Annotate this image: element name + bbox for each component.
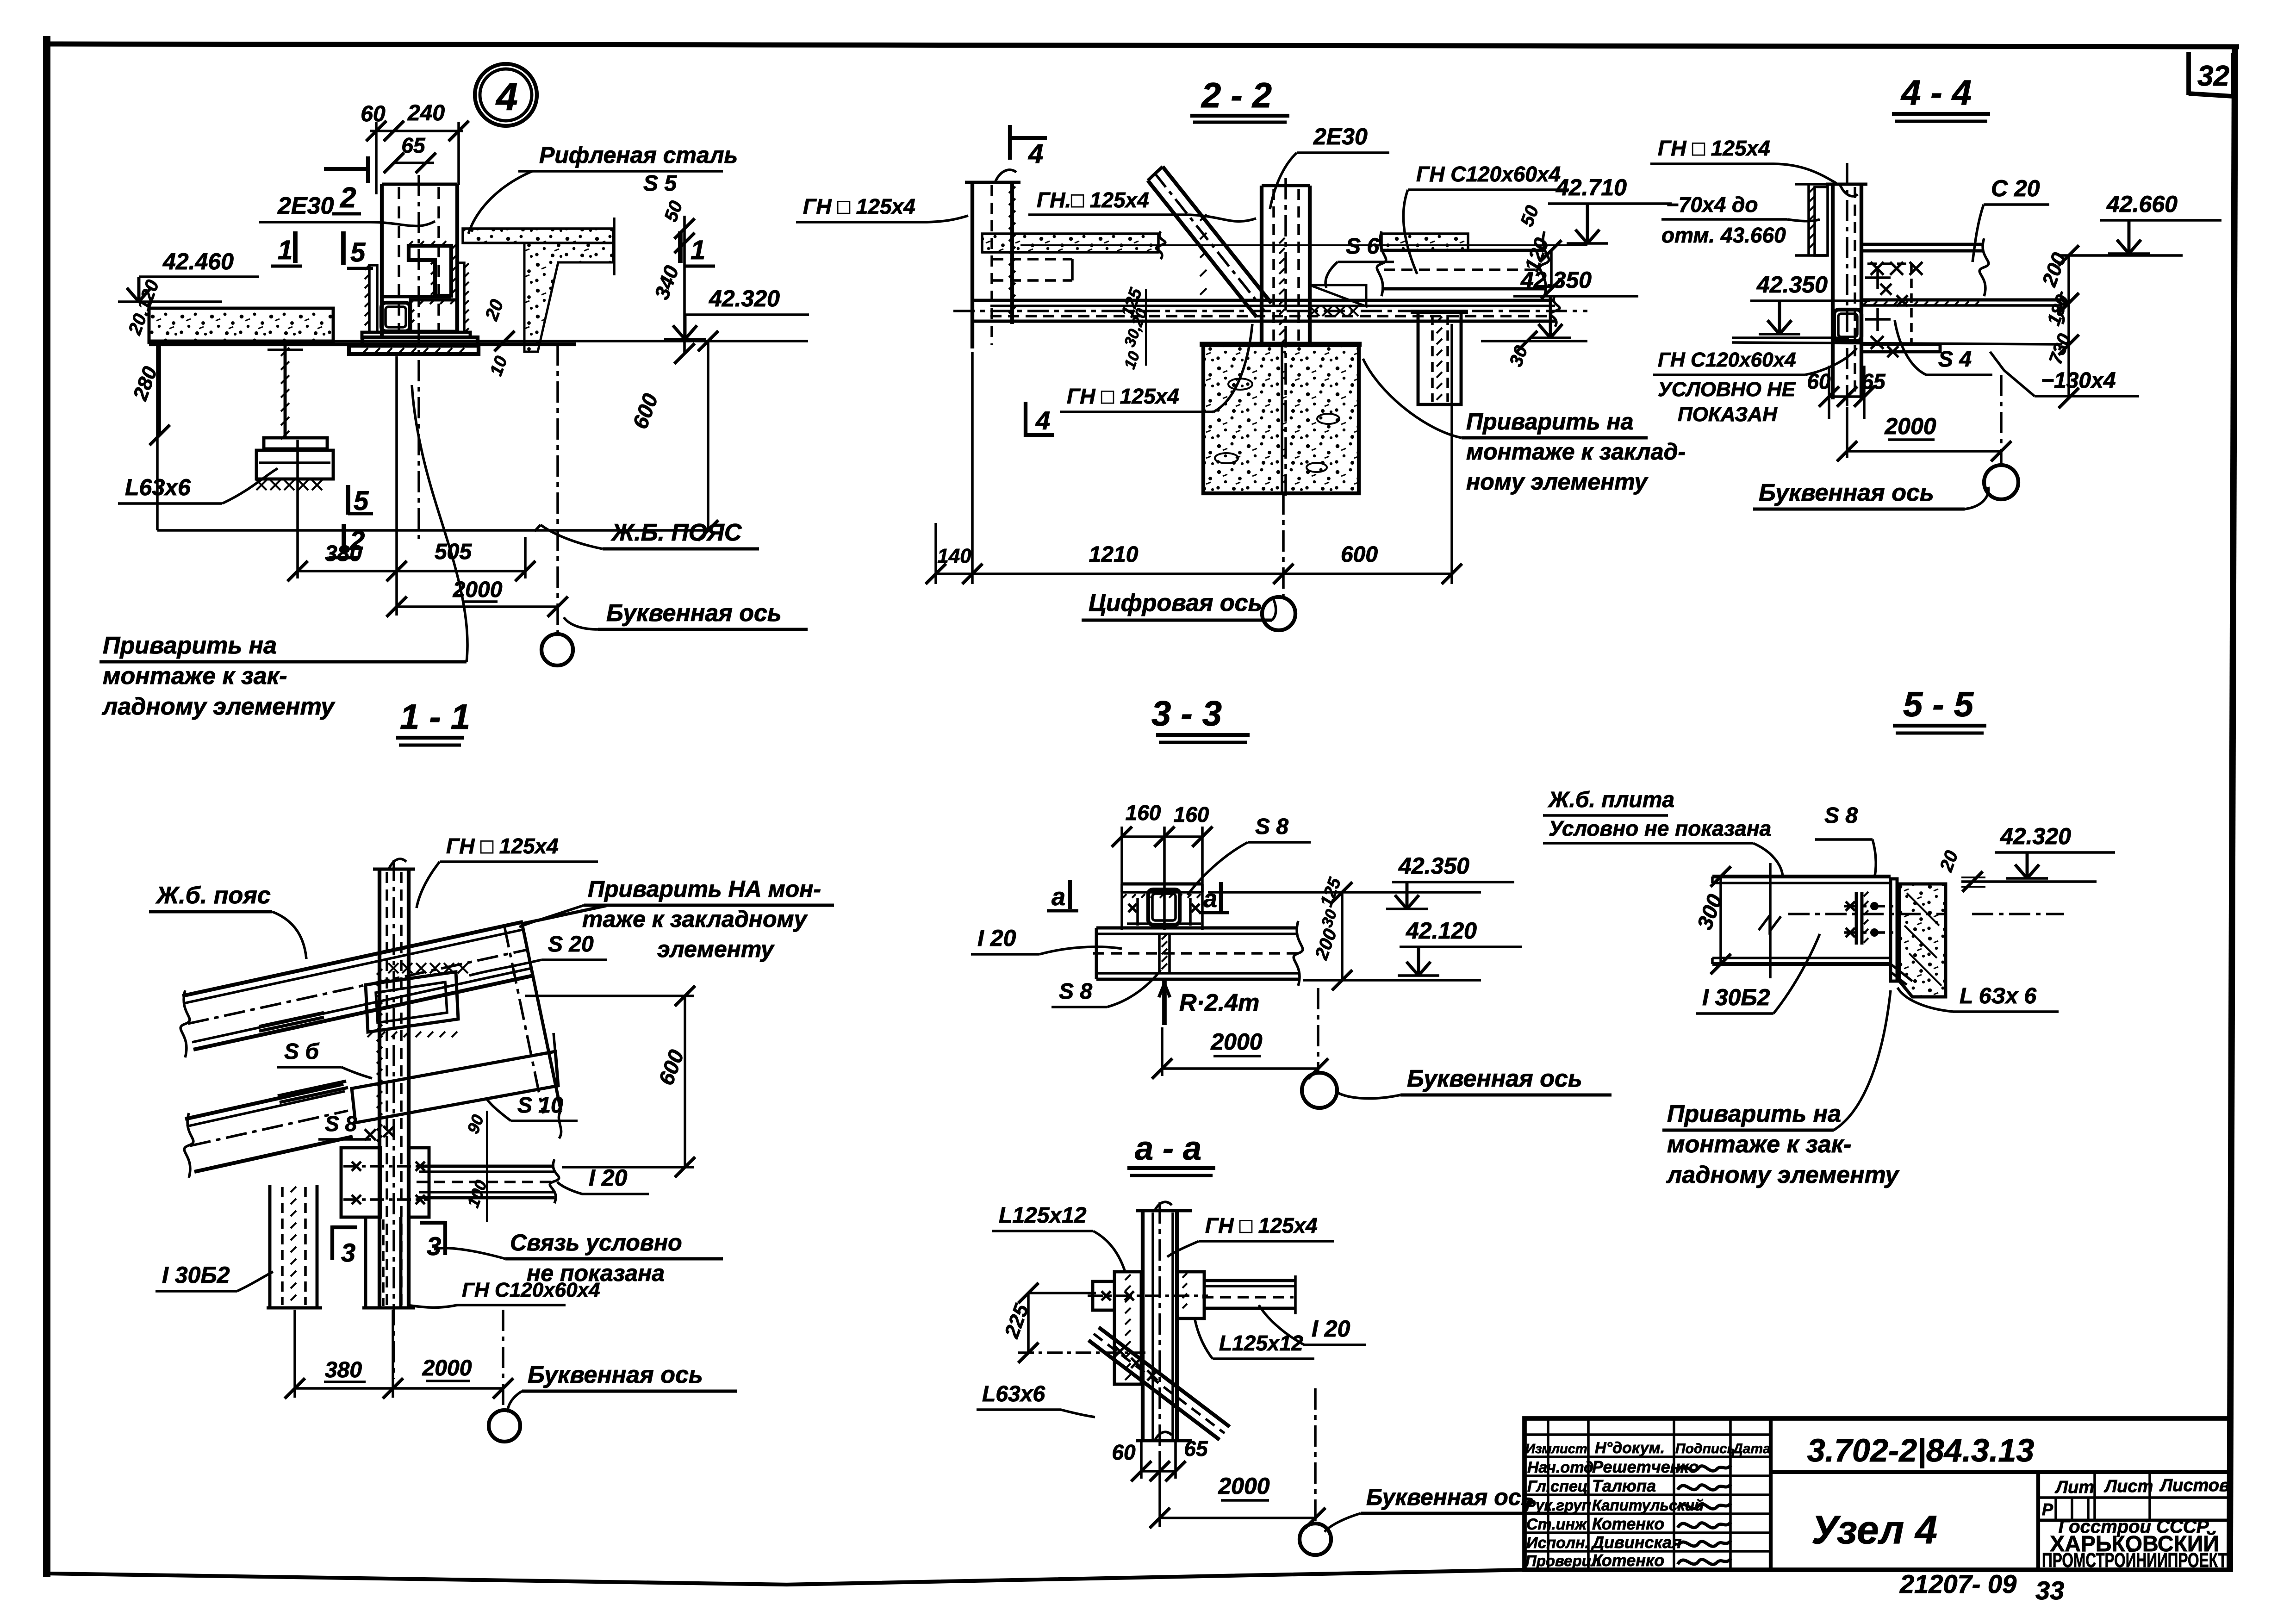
beam I20 hidden [417, 1181, 555, 1183]
ext line 600 bottom [562, 1166, 694, 1169]
beam I20 right hidden [1202, 1296, 1294, 1299]
right panel edge centerline [504, 927, 543, 1113]
lower slab top (1-1) [185, 1084, 343, 1119]
pier concrete [1203, 345, 1359, 493]
right beam bottom line [1381, 287, 1544, 291]
gusset plate [1310, 285, 1366, 306]
svg-text:10: 10 [1121, 349, 1144, 372]
weld x above splice [365, 1129, 376, 1140]
left outer plate a-a [1093, 1281, 1114, 1310]
svg-text:20: 20 [481, 297, 508, 323]
svg-text:a - a: a - a [1135, 1130, 1201, 1167]
bottom chord weld dots [1863, 301, 1867, 305]
column a-a outer left [1141, 1211, 1145, 1441]
svg-text:Лит: Лит [2054, 1478, 2094, 1497]
wall column weld hatch [1009, 187, 1015, 193]
svg-text:ГН С120х60х4: ГН С120х60х4 [1416, 162, 1561, 186]
dashed channel under slab [992, 258, 1072, 261]
end plate (5-5) [1891, 879, 1897, 981]
svg-text:600: 600 [628, 390, 663, 432]
svg-text:ГН □ 125х4: ГН □ 125х4 [803, 194, 915, 218]
column 4-4 cap [1826, 183, 1867, 186]
right beam right break [1540, 231, 1549, 296]
svg-text:21207- 09: 21207- 09 [1899, 1569, 2016, 1598]
svg-text:2000: 2000 [1218, 1473, 1269, 1499]
wall column cap [965, 181, 1020, 184]
ext line 600 top [525, 995, 694, 997]
center column hidden [1272, 189, 1275, 342]
embedded channel weld row [388, 963, 398, 973]
section flag 2 top [324, 167, 368, 171]
pedestal plate right [411, 300, 457, 331]
svg-text:Приварить на: Приварить на [103, 632, 277, 659]
svg-text:лист: лист [1550, 1442, 1587, 1456]
weld x zone [1871, 262, 1884, 275]
svg-text:ГН С120х60х4: ГН С120х60х4 [462, 1279, 600, 1301]
svg-text:таже к закладному: таже к закладному [582, 906, 808, 932]
left splice plate a-a [1114, 1272, 1141, 1384]
svg-text:1 - 1: 1 - 1 [400, 697, 470, 737]
diagonal brace hatch [1200, 214, 1207, 221]
svg-text:60: 60 [361, 102, 386, 126]
svg-text:2000: 2000 [1884, 413, 1936, 439]
brace2 left [364, 1217, 367, 1308]
section mark 1 left [293, 231, 298, 263]
base side stiffener left [369, 265, 377, 332]
left slab left edge [148, 302, 151, 344]
svg-text:5: 5 [350, 237, 366, 267]
svg-text:600: 600 [1341, 542, 1378, 567]
left cut line (5-5) [1769, 863, 1772, 978]
svg-text:монтаже к зак-: монтаже к зак- [103, 663, 287, 690]
column a-a inner lines [1151, 1213, 1154, 1439]
col 1-1 cap [373, 868, 415, 871]
axis circle (3-3) [1302, 1073, 1337, 1108]
svg-text:УСЛОВНО НЕ: УСЛОВНО НЕ [1658, 378, 1796, 401]
svg-text:ГН □ 125х4: ГН □ 125х4 [1205, 1213, 1318, 1237]
left I-beam bottom flange [264, 438, 327, 449]
beam I20 (1-1) bot2 [419, 1196, 554, 1200]
flag a right [1219, 882, 1223, 911]
svg-text:2000: 2000 [1210, 1029, 1262, 1055]
svg-text:Ж.б. пояс: Ж.б. пояс [155, 882, 271, 909]
lower slab top inner (1-1) [187, 1091, 345, 1126]
weld dots under base [363, 348, 368, 353]
svg-text:Рифленая сталь: Рифленая сталь [539, 142, 738, 168]
beam left end [1095, 928, 1098, 979]
concrete column (5-5) [1899, 884, 1946, 997]
main beam right break [1550, 295, 1560, 327]
svg-text:4: 4 [1035, 406, 1050, 435]
column hidden lines [398, 187, 400, 331]
svg-text:Листов: Листов [2159, 1476, 2230, 1495]
column top cap [382, 183, 457, 186]
svg-text:Буквенная ось: Буквенная ось [1759, 479, 1934, 506]
slab left break [180, 990, 190, 1057]
svg-text:60: 60 [1807, 369, 1831, 393]
axis circle (a-a) [1300, 1524, 1331, 1555]
dim extensions (1-1) [293, 1310, 296, 1398]
svg-text:монтаже к зак-: монтаже к зак- [1667, 1131, 1851, 1158]
weld splice strip [1158, 934, 1161, 973]
column a-a bottom cap [1136, 1439, 1192, 1443]
brace2 bottom [362, 1306, 404, 1310]
column 4-4 left [1831, 184, 1835, 399]
svg-text:Ж.Б. ПОЯС: Ж.Б. ПОЯС [610, 519, 742, 546]
page border bottom [47, 1570, 1524, 1585]
left plate hatch [1125, 1275, 1131, 1280]
svg-text:a: a [1203, 885, 1217, 913]
top chord line1 [1861, 243, 1984, 246]
svg-text:L63х6: L63х6 [982, 1382, 1045, 1406]
svg-text:Узел 4: Узел 4 [1811, 1508, 1937, 1552]
axis circle TL [541, 634, 573, 665]
plate -70x4 [1815, 187, 1828, 255]
cap channel dots [1123, 894, 1126, 898]
svg-text:Лист: Лист [2103, 1477, 2153, 1496]
svg-text:4: 4 [1028, 139, 1043, 169]
right beam hidden mid [1384, 268, 1541, 271]
deck plate line [149, 342, 576, 346]
bolt axis upper a-a [1088, 1294, 1208, 1297]
svg-text:Буквенная ось: Буквенная ось [528, 1362, 703, 1388]
svg-text:R·2.4т: R·2.4т [1179, 989, 1259, 1016]
embedded channel (1-1) [366, 972, 458, 1032]
bolt hanger cap [1411, 310, 1468, 314]
svg-text:380: 380 [325, 541, 362, 566]
beam I20 (3-3) bot2 [1096, 978, 1298, 981]
bottom chord line1 [1861, 298, 2062, 302]
bolt plate hatch [1864, 892, 1868, 896]
svg-text:S 6: S 6 [1346, 234, 1379, 259]
bolt hanger inner [1431, 315, 1434, 402]
svg-text:Котенко: Котенко [1592, 1551, 1664, 1570]
svg-text:5 - 5: 5 - 5 [1903, 685, 1974, 724]
svg-text:2Е30: 2Е30 [277, 193, 334, 219]
svg-text:Приварить на: Приварить на [1466, 409, 1634, 435]
left I-beam web hatch [281, 348, 289, 356]
level line (3-3) top [1208, 891, 1481, 894]
col 1-1 centerline [392, 860, 395, 1379]
main beam bottom line [972, 320, 1555, 323]
bolt axis lower a-a [1018, 1351, 1145, 1354]
svg-text:ПОКАЗАН: ПОКАЗАН [1678, 403, 1778, 426]
svg-text:Дивинская: Дивинская [1591, 1533, 1681, 1552]
left I-beam web [284, 344, 287, 438]
svg-text:140: 140 [937, 545, 971, 567]
bolt cross 1 [1865, 276, 1891, 279]
splice left plate [341, 1148, 380, 1217]
bottom bracket (4-4) [1861, 344, 1940, 352]
svg-text:−130х4: −130х4 [2041, 368, 2116, 393]
splice bolts [343, 1165, 430, 1168]
svg-text:Буквенная ось: Буквенная ось [1366, 1484, 1535, 1510]
svg-text:160: 160 [1174, 802, 1209, 827]
svg-text:730: 730 [2045, 331, 2075, 367]
svg-text:ГН.□ 125х4: ГН.□ 125х4 [1037, 188, 1149, 212]
right haunch concrete [524, 243, 613, 352]
beam right hatch [1182, 1273, 1187, 1278]
svg-text:Цифровая ось: Цифровая ось [1089, 590, 1262, 616]
beam I20 (3-3) top2 [1096, 933, 1298, 935]
wall column hidden [990, 185, 993, 345]
level line 42.350 right [1481, 340, 1587, 342]
bottom chord break [2058, 292, 2067, 324]
svg-text:S 5: S 5 [643, 171, 677, 196]
cap channel (3-3) [1122, 883, 1202, 886]
bolt hanger hatch [1437, 317, 1442, 322]
section flag 5 bottom [346, 485, 350, 515]
diag brace weld x [1115, 1346, 1125, 1356]
right beam left break [1377, 231, 1386, 296]
column a-a outer right [1175, 1211, 1179, 1441]
column base plate [362, 332, 470, 337]
svg-text:L 6Зх 6: L 6Зх 6 [1960, 984, 2036, 1008]
svg-text:L125х12: L125х12 [999, 1203, 1087, 1228]
diagonal brace centerline [1154, 173, 1264, 310]
main beam centerline [953, 310, 1587, 312]
svg-text:I 30Б2: I 30Б2 [162, 1262, 230, 1288]
level line (5-5) [1961, 880, 2097, 883]
gusset S10 (1-1) [352, 1051, 558, 1123]
svg-text:L63х6: L63х6 [125, 474, 191, 500]
svg-text:S 8: S 8 [1255, 815, 1288, 839]
floor level line 2-2 [1020, 244, 1587, 246]
svg-text:S 8: S 8 [1824, 803, 1858, 828]
dim line 140-1210-600 [936, 572, 1452, 575]
svg-text:С 20: С 20 [1991, 175, 2040, 201]
svg-text:Приварить НА мон-: Приварить НА мон- [588, 876, 821, 902]
column 2E30 right line [455, 184, 459, 332]
svg-text:42.350: 42.350 [1756, 272, 1828, 298]
gusset weld row [1309, 306, 1319, 316]
beam I20 (1-1) bot1 [419, 1191, 554, 1194]
right beam top line [1381, 249, 1544, 252]
tb row lines left [1524, 1433, 1771, 1436]
col 1-1 left line [378, 869, 381, 1308]
gusset right vertical cut [554, 1033, 558, 1085]
wall small squiggle top [995, 170, 1016, 182]
tb lit header [2038, 1496, 2231, 1499]
base side stiffener right [458, 263, 464, 332]
left slab 2-2 concrete [982, 234, 1158, 252]
plate -70x4 weld hatch [1809, 187, 1815, 193]
beam 30B2 top flange [1712, 875, 1891, 878]
beam I20 right end tick [1294, 1275, 1297, 1314]
wall column right line [1010, 182, 1014, 324]
dim line 2000 TL [397, 605, 558, 608]
level line 42320 [149, 340, 808, 342]
svg-text:S б: S б [284, 1039, 319, 1064]
lower slab centerline [190, 1111, 348, 1146]
flag 3 right [443, 1221, 447, 1255]
level line 42660 [2060, 254, 2183, 257]
dashed gusset (4-4) [1867, 262, 1911, 265]
svg-text:S 20: S 20 [548, 932, 594, 957]
svg-text:Нач.отд: Нач.отд [1527, 1459, 1593, 1476]
axis circle (1-1) [489, 1410, 520, 1442]
center column centerline [1284, 178, 1287, 497]
svg-text:Рук.груп: Рук.груп [1525, 1497, 1591, 1514]
svg-text:a: a [1052, 883, 1065, 911]
svg-text:505: 505 [435, 540, 472, 564]
embedded channel hatch [367, 1032, 373, 1037]
beam bottom angle (5-5) [1891, 964, 1912, 981]
svg-text:1210: 1210 [1089, 542, 1139, 567]
bolt cross 2 [1865, 318, 1891, 321]
svg-text:50: 50 [660, 198, 687, 224]
svg-text:Буквенная ось: Буквенная ось [606, 600, 782, 627]
sheet number box 32 [2186, 52, 2191, 95]
beam right break [1294, 921, 1303, 986]
brace2 right [399, 1217, 403, 1308]
svg-text:42.660: 42.660 [2106, 191, 2178, 217]
slab top line (1-1) [182, 922, 523, 996]
dim line 380-505 [298, 570, 525, 572]
splice right plate [409, 1148, 429, 1217]
svg-text:340: 340 [650, 262, 683, 302]
svg-text:ГН □ 125х4: ГН □ 125х4 [1658, 136, 1770, 160]
bolt axes (5-5) [1844, 905, 1895, 908]
squiggle top col [1840, 184, 1858, 196]
axis (3-3) [1317, 988, 1319, 1073]
svg-text:I 30Б2: I 30Б2 [1702, 984, 1770, 1010]
axis (a-a) [1314, 1388, 1317, 1524]
column 4-4 hidden [1854, 187, 1856, 397]
tb lit cells [2054, 1498, 2057, 1520]
diag brace a-a dashes [1094, 1334, 1225, 1433]
right panel top tick [522, 906, 606, 924]
page border right [2230, 45, 2235, 1570]
svg-text:3: 3 [341, 1238, 355, 1267]
tb code cell line [1771, 1470, 2231, 1474]
svg-text:1: 1 [691, 235, 705, 265]
svg-text:42.710: 42.710 [1556, 174, 1627, 200]
column 4-4 right [1860, 184, 1863, 399]
column lower plate [349, 346, 479, 354]
beam I20 (3-3) bot1 [1096, 972, 1298, 975]
top chord line2 [1861, 249, 1984, 253]
section mark 1 right [678, 231, 683, 263]
svg-text:ладному элементу: ладному элементу [101, 693, 336, 720]
svg-text:65: 65 [1184, 1436, 1208, 1461]
page border top [47, 44, 2239, 47]
right beam concrete topping [1381, 234, 1468, 250]
column a-a top cap [1136, 1209, 1192, 1213]
svg-text:2 - 2: 2 - 2 [1201, 76, 1272, 115]
dim line 60-240 [370, 130, 463, 132]
right splice plate a-a [1177, 1272, 1204, 1318]
extension line right of haunch [613, 218, 616, 275]
svg-text:I 20: I 20 [977, 925, 1016, 951]
center column right [1308, 186, 1312, 346]
svg-text:Н°докум.: Н°докум. [1595, 1439, 1665, 1457]
col 1-1 hidden [386, 872, 388, 1305]
beam I20 (1-1) top1 [419, 1165, 554, 1168]
section flag 4 top [1008, 125, 1012, 160]
lower slab break [184, 1113, 193, 1178]
brace I30B2 bottom [267, 1306, 322, 1310]
axis (1-1) [502, 1310, 504, 1410]
slab centerline (1-1) [188, 950, 528, 1024]
svg-text:42.320: 42.320 [2000, 823, 2071, 849]
svg-text:42.350: 42.350 [1520, 267, 1592, 293]
section flag 4 bottom [1024, 402, 1027, 437]
slab small plate on top [259, 1013, 324, 1026]
col 1-1 bottom cap [373, 1306, 415, 1310]
dim 380-2000 (1-1) [295, 1387, 503, 1390]
slab top inner line (1-1) [184, 929, 524, 1003]
bolt plate (5-5) [1855, 892, 1858, 945]
tb left col lines [1547, 1418, 1549, 1570]
svg-text:2000: 2000 [453, 578, 503, 602]
svg-text:Талюпа: Талюпа [1592, 1476, 1656, 1495]
svg-text:380: 380 [325, 1358, 362, 1382]
svg-text:4 - 4: 4 - 4 [1900, 73, 1972, 112]
svg-text:2000: 2000 [422, 1356, 472, 1380]
bottom line (4-4) [1732, 342, 2062, 344]
beam I20 (3-3) top1 [1096, 927, 1298, 930]
svg-text:50: 50 [1517, 203, 1543, 229]
beam I20 break [550, 1159, 559, 1203]
svg-text:3 - 3: 3 - 3 [1151, 694, 1222, 734]
square tube (4-4) [1834, 310, 1861, 341]
slab bottom line (1-1) [193, 976, 533, 1050]
main beam second line [990, 305, 1555, 307]
column 4-4 centerline [1846, 163, 1848, 407]
svg-text:42.320: 42.320 [709, 286, 780, 311]
beam 30B2 bottom flange [1712, 957, 1891, 959]
reaction arrow [1162, 980, 1167, 1025]
svg-text:Условно не показана: Условно не показана [1549, 816, 1771, 840]
column centerline [417, 175, 420, 539]
svg-text:S 8: S 8 [325, 1112, 357, 1136]
node mark circle 4 [475, 64, 537, 126]
svg-text:Приварить на: Приварить на [1667, 1101, 1841, 1127]
svg-text:отм. 43.660: отм. 43.660 [1661, 223, 1786, 247]
pier top plate [1200, 342, 1362, 347]
svg-text:I 20: I 20 [589, 1165, 628, 1191]
main beam hidden [990, 315, 1553, 317]
brace2 hidden [382, 1219, 385, 1306]
svg-text:20: 20 [1936, 848, 1962, 875]
plate dim bracket [1807, 184, 1810, 255]
beam centerline (5-5) [1788, 913, 1946, 915]
svg-text:Ж.б. плита: Ж.б. плита [1547, 788, 1674, 812]
extension line y1146 [157, 529, 708, 532]
right panel edge solid [522, 924, 561, 1111]
svg-text:S 10: S 10 [517, 1093, 563, 1118]
svg-text:Р: Р [2042, 1500, 2053, 1519]
center column left [1260, 186, 1263, 346]
svg-text:Изм: Изм [1525, 1442, 1552, 1456]
square tube section [381, 303, 410, 331]
svg-text:160: 160 [1126, 801, 1161, 825]
svg-text:65: 65 [401, 133, 426, 157]
svg-text:ному элементу: ному элементу [1466, 469, 1648, 495]
beam 30B2 left ends [1711, 877, 1714, 883]
svg-text:ГН □ 125х4: ГН □ 125х4 [1067, 384, 1179, 408]
column a-a centerline [1158, 1202, 1161, 1451]
brace I30B2 weld [291, 1187, 296, 1192]
col 1-1 weld seam [377, 969, 382, 975]
svg-text:ладному элементу: ладному элементу [1666, 1162, 1900, 1188]
flag a left [1068, 880, 1072, 909]
column mid plate [362, 337, 478, 346]
svg-text:4: 4 [495, 75, 518, 118]
tb uzel cell [2036, 1472, 2040, 1570]
center column weld seam [1279, 238, 1285, 243]
